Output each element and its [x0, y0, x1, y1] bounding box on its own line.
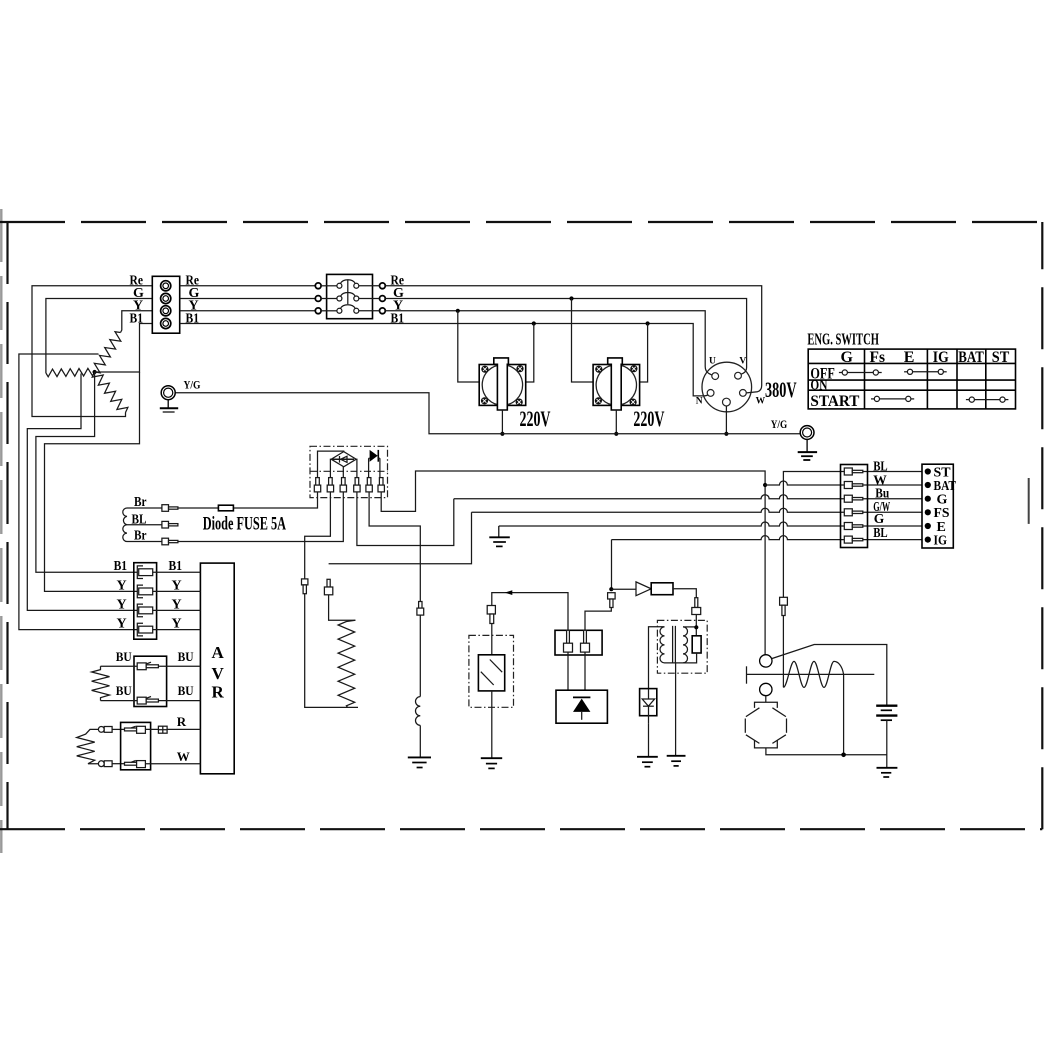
node BAT tap	[763, 483, 767, 487]
charge diode box	[556, 690, 607, 723]
page edge grey dashes left	[0, 209, 2, 853]
connector on resistor-bottom wire	[302, 579, 308, 594]
harness connector block CN3	[841, 465, 868, 548]
wire X3 to earth bus	[725, 406, 727, 434]
node star point	[93, 370, 97, 374]
ground L1	[408, 757, 431, 767]
wire U1 pin2 to resistor bottom	[305, 492, 331, 579]
node X1 earth	[500, 432, 504, 436]
harness wire ST	[783, 472, 922, 598]
svg-text:IG: IG	[933, 349, 949, 366]
inductor L1	[415, 697, 420, 726]
wire Br2 to U1 pin3	[178, 492, 343, 542]
stator Re-phase coil (lower diagonal zigzag)	[92, 372, 128, 413]
pilot lamp body	[478, 655, 504, 691]
wire U1 pin1 to bridge top	[318, 451, 344, 478]
wire BU top	[101, 665, 201, 667]
wire Re to 380V W pin	[385, 286, 761, 393]
node X2 earth	[614, 432, 618, 436]
U1 pin 3	[340, 478, 346, 492]
wire resistor bottom run	[305, 594, 358, 708]
wire module to coil	[673, 589, 696, 598]
wire R to AVR	[145, 728, 200, 730]
wire charge diode left to ground	[648, 723, 650, 757]
T1 secondary winding	[683, 627, 688, 663]
TB1 terminal FS	[925, 509, 931, 515]
pilot lamp connector box	[555, 630, 602, 655]
S1 left terminal row3	[315, 308, 321, 314]
charging coil W3 arcs	[123, 508, 127, 542]
svg-text:R: R	[177, 714, 187, 729]
U1 pin 2	[327, 478, 333, 492]
wires lamp box to charge diode	[568, 652, 585, 690]
TB1 terminal ST	[925, 468, 931, 474]
OFF contact E-IG	[904, 369, 947, 374]
CN2 contact Y2	[137, 604, 152, 617]
relay contact moving	[760, 683, 772, 695]
wire CN1 to switch row Y	[180, 310, 316, 312]
svg-text:Y: Y	[117, 617, 127, 632]
X2 screw bottom-right	[630, 399, 637, 406]
wire moving contact to motor	[765, 696, 767, 703]
svg-text:ON: ON	[810, 377, 827, 393]
X1 plug blade	[494, 358, 509, 410]
wire through zener box	[648, 689, 650, 724]
wire lamp feed	[492, 593, 568, 631]
S1 inner contacts row1	[321, 280, 379, 289]
svg-text:ST: ST	[992, 349, 1010, 366]
wire coil down	[419, 615, 421, 697]
wire FS sense run	[329, 512, 472, 564]
wire B1 to AVR	[153, 571, 201, 573]
diode D2	[369, 450, 380, 478]
charge diode stem	[581, 712, 583, 720]
wire Br1 lead	[127, 507, 162, 509]
svg-text:A: A	[212, 643, 225, 662]
svg-text:B1: B1	[391, 311, 405, 326]
CN5 contact W	[125, 761, 146, 768]
relay contact fixed	[760, 655, 772, 667]
svg-text:Fs: Fs	[870, 349, 886, 366]
connector on ST wire	[780, 597, 788, 615]
pilot lamp dash-dot box	[469, 635, 514, 707]
node G / socket2	[569, 296, 573, 300]
U1 pin 4	[354, 478, 360, 492]
wire motor to battery bus	[766, 748, 887, 755]
stator G-phase coil (horizontal zigzag)	[46, 368, 95, 377]
CN1 pin 3	[161, 306, 171, 316]
wire solenoid to battery-minus bus	[843, 674, 845, 754]
harness wire E with hops	[499, 522, 922, 526]
node solenoid/battery bus	[841, 753, 846, 758]
exciter coil BU	[92, 666, 110, 700]
X3 pin N	[707, 390, 714, 397]
RW connector block CN5	[121, 722, 151, 769]
svg-text:BU: BU	[178, 649, 195, 664]
dashed drawing border	[0, 222, 1042, 829]
X2 plug blade	[608, 358, 623, 410]
fuse F1 5A	[218, 505, 233, 511]
U1 pin 1	[314, 478, 320, 492]
wire Br2 lead	[127, 541, 162, 543]
D1 inner diode	[332, 456, 354, 463]
X2 screw top-right	[630, 365, 637, 372]
wire T1 secondary to ground	[675, 664, 677, 756]
connector Br2	[162, 538, 178, 545]
arrow mark on lamp wire	[505, 590, 513, 595]
svg-text:Y: Y	[172, 617, 182, 632]
wire B1 long run under switch	[180, 324, 709, 396]
CN2 contact B1	[137, 566, 152, 579]
engine terminal block TB1	[922, 464, 953, 548]
node B1 / socket2	[646, 321, 650, 325]
box pin L	[564, 630, 573, 652]
S1 inner contacts row2	[321, 292, 379, 301]
connector BL	[162, 521, 178, 528]
svg-text:BU: BU	[116, 649, 133, 664]
X3 pin U	[712, 373, 719, 380]
svg-text:B1: B1	[130, 311, 144, 326]
TB1 terminal G	[925, 496, 931, 502]
wire Y phase to CN1	[121, 311, 153, 333]
node Y / socket1	[456, 309, 460, 313]
node B1 / socket1	[532, 321, 536, 325]
connector on coil feed	[692, 598, 701, 615]
svg-text:G: G	[874, 511, 885, 526]
wire B1 star to CN1	[95, 324, 153, 373]
wire X1 to earth bus	[501, 410, 503, 434]
harness wire G with hops	[454, 495, 922, 499]
wire L1 to ground	[419, 725, 421, 757]
svg-text:ENG. SWITCH: ENG. SWITCH	[807, 330, 879, 349]
CN2 contact Y1	[137, 585, 152, 598]
svg-text:BL: BL	[873, 458, 888, 473]
wire socket2 left pin	[572, 299, 594, 383]
ground E	[489, 526, 510, 546]
wire socket1 right pin	[526, 324, 534, 383]
wire IG node to lamp box pin	[585, 608, 611, 631]
wire G phase to CN1	[46, 299, 152, 374]
wire Y1 to AVR	[153, 590, 201, 592]
ground Y/G right	[798, 426, 817, 460]
CN3 contact 5	[844, 523, 863, 530]
svg-text:Y/G: Y/G	[184, 379, 201, 391]
resistor R1 zigzag	[338, 620, 355, 707]
TB1 terminal E	[925, 523, 931, 529]
wire Y to 380V U pin	[385, 311, 712, 375]
connector Br1	[162, 505, 178, 512]
RW round connector top	[98, 727, 112, 733]
U1 inner dash-dot divider	[310, 470, 388, 472]
connector on lamp wire	[487, 606, 495, 624]
svg-text:BAT: BAT	[958, 349, 984, 366]
T1 bottom link	[665, 653, 697, 663]
box pin R	[581, 630, 590, 652]
wire into lamp	[491, 624, 493, 655]
TB1 terminal IG	[925, 537, 931, 543]
CN3 contact 2	[844, 482, 863, 489]
wire R to block	[112, 728, 124, 730]
wire battery minus down	[886, 720, 888, 768]
svg-text:BU: BU	[178, 683, 195, 698]
svg-text:Y: Y	[117, 578, 127, 593]
wire U1 pin5 to regulator coil	[369, 492, 420, 602]
wire Br1 to U1 pin1	[178, 492, 318, 508]
X1 screw bottom-left	[481, 397, 488, 404]
svg-text:R: R	[212, 682, 225, 701]
svg-text:V: V	[212, 664, 225, 683]
ignition feed wire IG down	[611, 540, 613, 590]
BU connector block CN4	[134, 656, 167, 706]
OFF contact G-Fs	[839, 370, 882, 375]
T1 feed wire left	[649, 627, 665, 689]
svg-text:IG: IG	[934, 533, 948, 548]
svg-text:Br: Br	[134, 495, 147, 510]
connector CN1 body	[152, 276, 179, 333]
S1 right terminal row2	[380, 296, 386, 302]
amplifier triangle	[636, 582, 651, 596]
harness wire IG with hops	[612, 536, 923, 540]
X3 pin earth	[723, 398, 731, 406]
connector below IG node	[608, 593, 616, 608]
wire G to 380V V pin	[385, 299, 746, 375]
CN5 contact R	[125, 726, 146, 733]
U1 pin 5	[366, 478, 372, 492]
CN3 contact 3	[844, 495, 863, 502]
wire Y2 to AVR	[153, 609, 201, 611]
connector on coil wire	[417, 602, 424, 616]
svg-text:B1: B1	[114, 559, 128, 574]
CN1 pin 1	[161, 281, 171, 291]
S1 left terminal row2	[315, 296, 321, 302]
wire CN1 to switch row Re	[180, 285, 316, 287]
wire connector to coil dot	[695, 615, 697, 636]
svg-text:BU: BU	[116, 683, 133, 698]
socket X1 220V body	[479, 365, 526, 406]
svg-text:E: E	[904, 349, 915, 366]
relay frame bar	[746, 666, 748, 683]
rectifier unit U1 dash-dot box	[310, 446, 388, 497]
svg-text:Br: Br	[134, 529, 147, 544]
S1 common bar	[347, 280, 349, 305]
svg-text:220V: 220V	[633, 406, 664, 431]
S1 inner contacts row3	[321, 305, 379, 314]
wire Y-coil tap to AVR Y3	[19, 354, 137, 630]
wire ST to solenoid	[782, 616, 784, 688]
CN3 contact 1	[844, 468, 863, 475]
ground T1	[667, 756, 686, 766]
CN4 contact BU2	[137, 697, 158, 705]
svg-text:START: START	[810, 393, 859, 410]
TB1 terminal BAT	[925, 482, 931, 488]
wire star to AVR B1	[36, 372, 137, 572]
socket X3 380V body	[702, 362, 752, 412]
wire W to block	[112, 763, 124, 765]
wire U1 pin4 to bridge right	[355, 459, 358, 477]
svg-text:BL: BL	[132, 512, 147, 527]
harness wire FS with hops	[472, 508, 923, 512]
wire G-coil tap to AVR Y2	[27, 374, 137, 611]
inline junction cross on R	[158, 726, 167, 733]
X3 pin W	[740, 390, 747, 397]
svg-text:Y: Y	[172, 597, 182, 612]
T1 damper resistor	[692, 636, 701, 653]
ground battery	[877, 768, 898, 777]
CN2 contact Y3	[137, 623, 152, 636]
solenoid coil	[783, 661, 843, 687]
ground charge diode	[637, 757, 658, 767]
relay blade	[772, 645, 887, 706]
resistor R1 top lead	[329, 595, 356, 621]
node X3 earth	[724, 432, 728, 436]
svg-text:Y: Y	[172, 578, 182, 593]
START contact BAT-ST	[966, 397, 1009, 402]
X1 screw bottom-right	[516, 399, 523, 406]
X2 screw top-left	[595, 366, 602, 373]
wire W to AVR	[145, 763, 200, 765]
wire Y/G earth bus	[175, 393, 800, 434]
svg-text:G: G	[841, 349, 854, 366]
harness wire BAT with hop	[765, 481, 922, 485]
U1 pin 6	[378, 478, 384, 492]
zener diode inside charge box	[642, 699, 654, 706]
ignition coil T1 dash-dot box	[657, 620, 707, 673]
svg-text:Y/G: Y/G	[771, 419, 788, 431]
relay line	[747, 673, 875, 675]
wire socket2 right pin	[640, 324, 648, 383]
CN3 contact 4	[844, 509, 863, 516]
svg-text:380V: 380V	[765, 377, 797, 402]
wire BL lead	[127, 524, 162, 526]
wire Y3 to AVR	[153, 629, 201, 631]
CN4 contact BU1	[137, 662, 158, 670]
battery BT1	[876, 706, 897, 721]
wire Re phase to CN1	[32, 286, 152, 417]
AVR sense connector block CN2	[134, 563, 157, 640]
socket X2 220V body	[593, 365, 640, 406]
wire lamp to ground	[491, 691, 493, 758]
lamp diag 2	[481, 672, 494, 685]
X1 screw top-left	[481, 366, 488, 373]
wire BU bottom	[101, 700, 201, 702]
node T1 input	[694, 625, 698, 629]
wire CN1 to switch row G	[180, 298, 316, 300]
igniter module box	[651, 583, 673, 595]
node IG branch	[609, 587, 613, 591]
stator Y-phase coil (upper diagonal zigzag)	[94, 332, 121, 373]
charge diode bar	[573, 696, 590, 698]
svg-text:V: V	[739, 356, 746, 366]
wire U1 pin2 to bridge left	[329, 459, 332, 477]
T1 core	[673, 626, 676, 664]
connector on resistor-top wire	[324, 579, 332, 595]
svg-text:U: U	[709, 357, 716, 367]
CN3 contact 6	[844, 536, 863, 543]
charge diode triangle	[573, 699, 590, 712]
svg-text:Diode FUSE 5A: Diode FUSE 5A	[203, 514, 286, 535]
stray vertical mark right side	[1028, 478, 1030, 524]
pickup coil RW	[77, 729, 99, 763]
S1 right terminal row3	[380, 308, 386, 314]
svg-text:Y: Y	[117, 597, 127, 612]
wire socket1 left pin	[458, 311, 479, 382]
svg-text:W: W	[177, 749, 190, 764]
X2 screw bottom-left	[595, 397, 602, 404]
svg-text:B1: B1	[169, 559, 183, 574]
bridge rectifier D1 diamond	[331, 452, 356, 467]
ground lamp	[481, 758, 502, 768]
S1 right terminal row1	[380, 283, 386, 289]
wire X2 to earth bus	[615, 410, 617, 434]
AVR unit box	[200, 563, 234, 774]
wire U1 pin6 charge output to BAT node	[381, 471, 765, 655]
wire U1 pin4 to Bu terminal wire	[357, 492, 454, 546]
svg-text:220V: 220V	[520, 406, 551, 431]
zener diode box	[640, 689, 657, 716]
changeover switch S1 body	[327, 274, 373, 318]
S1 left terminal row1	[315, 283, 321, 289]
lamp diag 1	[490, 660, 502, 673]
RW round connector bottom	[98, 761, 112, 767]
ENG switch table frame	[808, 349, 1015, 409]
START contact Fs-E	[871, 396, 914, 401]
ground Y/G left	[160, 386, 178, 412]
CN1 pin 2	[161, 293, 171, 303]
wire star to AVR Y1	[45, 372, 140, 591]
svg-text:N: N	[696, 397, 703, 407]
wire IG to amp	[611, 588, 636, 590]
X1 screw top-right	[516, 365, 523, 372]
T1 top link	[683, 626, 696, 628]
svg-text:BL: BL	[873, 525, 888, 540]
X3 pin V	[735, 372, 742, 379]
T1 primary winding	[660, 627, 665, 663]
CN1 pin 4	[161, 318, 171, 328]
starter motor M1	[745, 702, 786, 748]
wire U1 pin3 to bridge bottom	[342, 467, 344, 478]
